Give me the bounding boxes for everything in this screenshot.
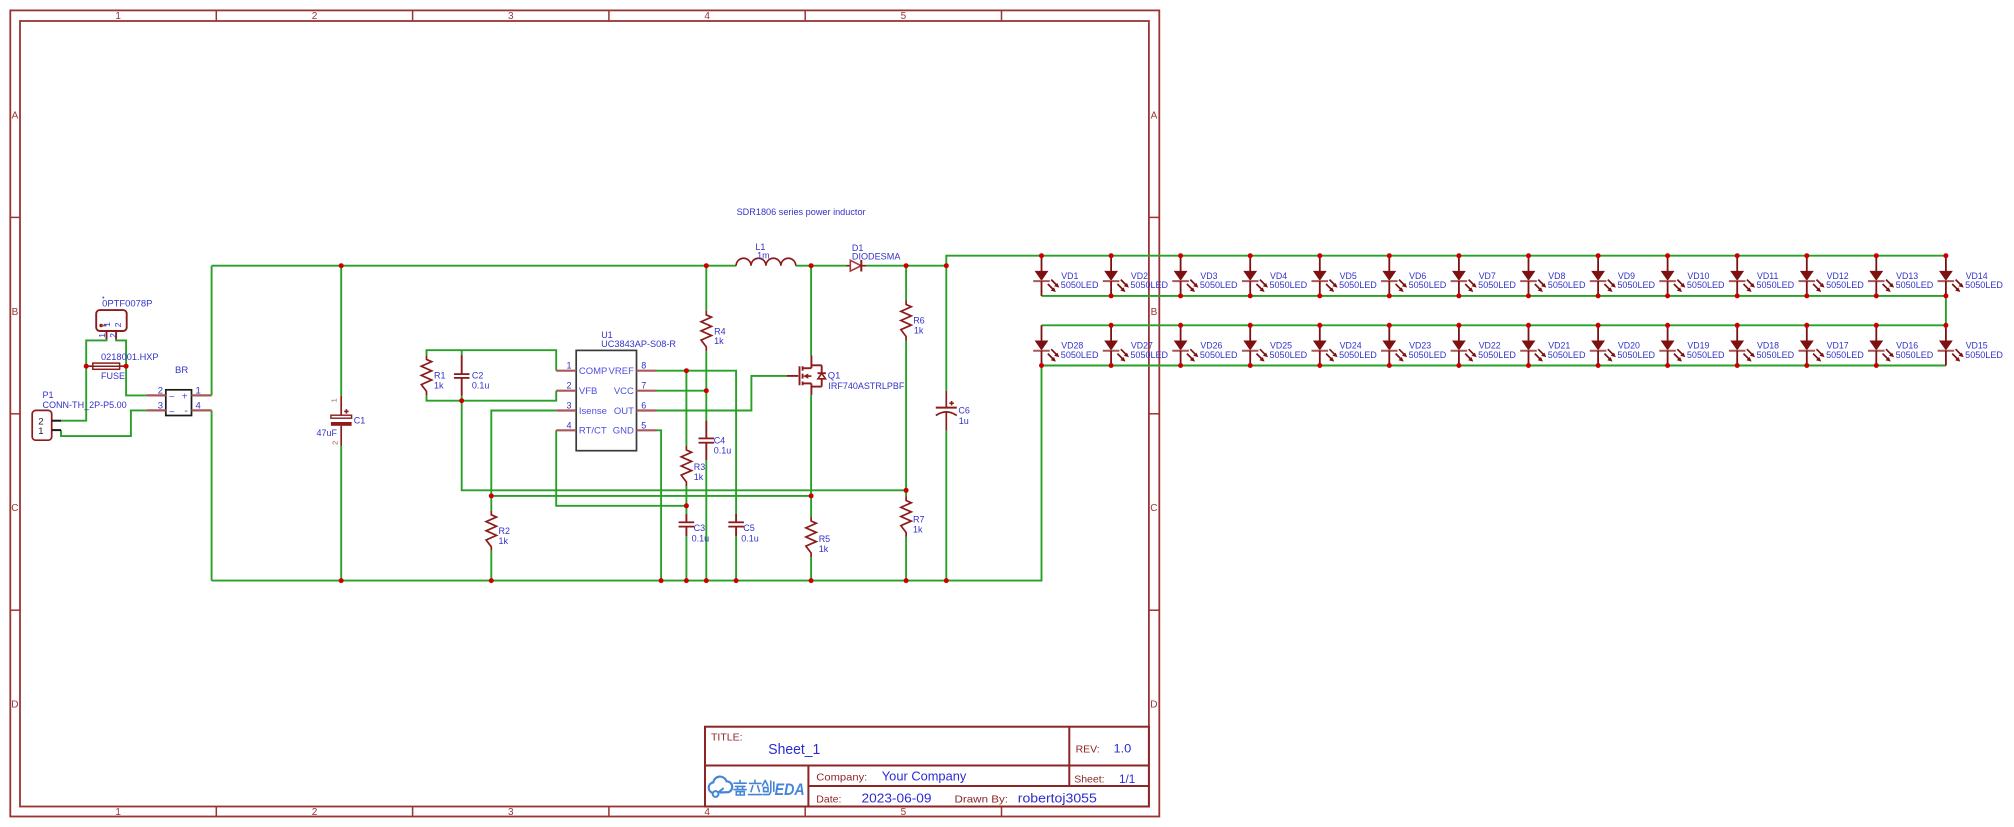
resistor R4 [701, 311, 726, 351]
wire R6 top [905, 266, 907, 301]
svg-text:R3: R3 [694, 462, 706, 472]
svg-text:EDA: EDA [775, 780, 805, 799]
svg-text:Sheet_1: Sheet_1 [768, 741, 820, 758]
LED VD27 5050LED [1103, 325, 1168, 365]
svg-text:VCC: VCC [614, 386, 634, 397]
svg-text:1k: 1k [913, 525, 923, 535]
wire R1/C2 bottom to U1 pin2 (VFB) [427, 391, 557, 401]
junctions LED row2 top rail [1109, 323, 1114, 328]
LED VD7 5050LED [1451, 256, 1516, 296]
svg-text:A: A [1151, 110, 1158, 121]
svg-text:VFB: VFB [579, 386, 597, 397]
svg-text:C3: C3 [694, 523, 706, 533]
svg-text:1k: 1k [819, 544, 829, 554]
inductor L1 1m [736, 242, 796, 266]
svg-text:C5: C5 [743, 523, 755, 533]
svg-text:5050LED: 5050LED [1548, 280, 1586, 290]
svg-text:OUT: OUT [614, 406, 634, 417]
svg-text:1m: 1m [757, 251, 770, 261]
LED VD28 5050LED [1033, 325, 1098, 365]
svg-text:5050LED: 5050LED [1200, 280, 1238, 290]
junction Q1 source/R5 [809, 493, 814, 498]
LED VD19 5050LED [1659, 325, 1724, 365]
wire C6 branch [945, 266, 947, 391]
wire C3 leads [685, 506, 687, 514]
svg-text:6: 6 [641, 401, 646, 411]
diode D1 DIODESMA [847, 243, 901, 272]
IC U1 UC3843AP-S08-R [556, 330, 676, 451]
LED VD11 5050LED [1729, 256, 1794, 296]
junction D1/R6 [904, 263, 909, 268]
svg-text:5050LED: 5050LED [1757, 350, 1795, 360]
LED VD23 5050LED [1381, 325, 1446, 365]
svg-text:C4: C4 [714, 436, 726, 446]
svg-text:1.0: 1.0 [1114, 741, 1132, 755]
wire Isense net to Q1 source / R5 [491, 495, 811, 497]
resistor R1 [421, 355, 445, 395]
junction R6/R7 divider [904, 488, 909, 493]
LED VD6 5050LED [1381, 256, 1446, 296]
LED VD8 5050LED [1520, 256, 1585, 296]
svg-text:47uF: 47uF [317, 428, 338, 438]
svg-text:COMP: COMP [579, 366, 608, 377]
connector P1 [32, 390, 127, 440]
svg-text:5050LED: 5050LED [1965, 280, 2003, 290]
svg-text:-: - [184, 405, 188, 417]
svg-text:5050LED: 5050LED [1965, 350, 2003, 360]
LED VD12 5050LED [1799, 256, 1864, 296]
svg-text:5050LED: 5050LED [1687, 280, 1725, 290]
svg-text:5050LED: 5050LED [1687, 350, 1725, 360]
svg-text:Isense: Isense [579, 406, 607, 417]
resistor R7 [901, 497, 925, 537]
svg-text:5050LED: 5050LED [1478, 350, 1516, 360]
junction C1 top [339, 263, 344, 268]
LED VD24 5050LED [1312, 325, 1377, 365]
svg-text:1k: 1k [914, 325, 924, 335]
LED VD5 5050LED [1312, 256, 1377, 296]
svg-text:C: C [11, 503, 18, 514]
svg-text:3: 3 [508, 807, 514, 818]
junction fuse right [124, 364, 129, 369]
wire Q1 source down [810, 395, 812, 496]
svg-text:~: ~ [169, 392, 175, 403]
junctions LED row2 bottom rail [1039, 363, 1044, 368]
svg-text:5: 5 [641, 420, 646, 430]
svg-text:Sheet:: Sheet: [1074, 774, 1104, 786]
LED VD4 5050LED [1242, 256, 1307, 296]
svg-text:2: 2 [330, 441, 339, 445]
LED VD16 5050LED [1868, 325, 1933, 365]
LED VD3 5050LED [1172, 256, 1237, 296]
svg-text:VREF: VREF [609, 366, 635, 377]
LED VD1 5050LED [1033, 256, 1098, 296]
capacitor C5 [728, 514, 759, 544]
wire main top rail [212, 265, 737, 267]
svg-text:+: + [182, 392, 188, 403]
junctions LED row1 top rail [1039, 253, 1044, 258]
svg-text:4: 4 [704, 807, 710, 818]
wire BR pin1 up to main rail [211, 266, 213, 396]
svg-text:5050LED: 5050LED [1339, 350, 1377, 360]
capacitor C3 [679, 514, 710, 544]
svg-text:2023-06-09: 2023-06-09 [862, 791, 932, 805]
fuse FUSE 0218001.HXP [86, 352, 158, 381]
wire P1.1 to BR pin3 [61, 410, 146, 436]
svg-text:1: 1 [115, 807, 121, 818]
svg-text:TITLE:: TITLE: [711, 732, 743, 744]
junction fuse left [84, 364, 89, 369]
LED VD21 5050LED [1520, 325, 1585, 365]
wire P1.2 to varistor/fuse left [61, 339, 107, 420]
svg-text:5050LED: 5050LED [1130, 280, 1168, 290]
svg-text:B: B [1151, 307, 1158, 318]
svg-text:1: 1 [38, 426, 43, 437]
wire LED row1 bottom rail to row2 top rail [1042, 296, 1946, 325]
svg-text:0PTF0078P: 0PTF0078P [102, 298, 152, 308]
svg-text:3: 3 [158, 401, 163, 412]
svg-text:FUSE: FUSE [101, 371, 125, 381]
wire LED row2 bottom rail [1042, 365, 1946, 367]
svg-text:0.1u: 0.1u [472, 380, 490, 390]
svg-text:R2: R2 [499, 526, 511, 536]
junction R2 top [489, 493, 494, 498]
capacitor C2 [454, 355, 490, 396]
svg-text:2: 2 [108, 333, 118, 338]
svg-text:A: A [12, 110, 19, 121]
svg-text:C6: C6 [958, 406, 970, 416]
svg-text:2: 2 [158, 386, 163, 397]
svg-text:Date:: Date: [816, 793, 841, 805]
junctions LED row1 bottom rail [1109, 293, 1114, 298]
LED VD9 5050LED [1590, 256, 1655, 296]
svg-text:1: 1 [196, 386, 201, 397]
svg-text:5050LED: 5050LED [1061, 280, 1099, 290]
resistor R5 [806, 517, 830, 557]
svg-text:R1: R1 [434, 370, 446, 380]
svg-text:robertoj3055: robertoj3055 [1018, 791, 1097, 805]
wire U1 pin7 (VCC) [657, 390, 707, 392]
svg-text:~: ~ [169, 407, 175, 418]
wire R6 bottom down to divider junction [905, 341, 907, 491]
svg-text:5050LED: 5050LED [1826, 280, 1864, 290]
LED VD2 5050LED [1103, 256, 1168, 296]
svg-text:5050LED: 5050LED [1130, 350, 1168, 360]
junction C2 bottom [459, 398, 464, 403]
svg-text:1: 1 [97, 333, 107, 338]
svg-text:Drawn By:: Drawn By: [955, 793, 1009, 805]
varistor 0PTF0078P [96, 297, 152, 340]
wire C1 branch [340, 266, 342, 396]
svg-text:BR: BR [175, 365, 188, 376]
svg-text:5050LED: 5050LED [1409, 350, 1447, 360]
LED VD22 5050LED [1451, 325, 1516, 365]
svg-text:0.1u: 0.1u [692, 534, 710, 544]
svg-text:P1: P1 [43, 390, 54, 400]
LED VD20 5050LED [1590, 325, 1655, 365]
wire U1 pin8 (VREF) right and down to C5 [657, 371, 737, 514]
junctions ground rail [339, 578, 344, 583]
capacitor C6 1u polarized [936, 391, 970, 431]
svg-text:4: 4 [704, 11, 710, 22]
svg-text:C2: C2 [472, 371, 484, 381]
svg-text:GND: GND [613, 426, 634, 437]
svg-text:1k: 1k [714, 336, 724, 346]
wire C4 bottom to ground [705, 460, 707, 580]
wire U1 pin4 (RT/CT) to C3 [556, 430, 686, 506]
svg-text:Your Company: Your Company [882, 770, 967, 784]
wire Q1 drain [810, 266, 812, 356]
svg-text:5050LED: 5050LED [1617, 350, 1655, 360]
wire U1 pin6 (OUT) to Q1 gate [657, 376, 788, 411]
svg-text:0.1u: 0.1u [741, 534, 759, 544]
svg-text:R5: R5 [819, 534, 831, 544]
logo JLCEDA [709, 777, 805, 799]
svg-text:2: 2 [113, 322, 123, 327]
svg-text:1u: 1u [959, 416, 969, 426]
svg-text:4: 4 [196, 401, 201, 412]
svg-text:RT/CT: RT/CT [579, 426, 607, 437]
svg-text:5050LED: 5050LED [1200, 350, 1238, 360]
wire BR pin4 down [211, 410, 213, 580]
svg-text:5050LED: 5050LED [1896, 280, 1934, 290]
svg-text:3: 3 [508, 11, 514, 22]
svg-text:5: 5 [901, 807, 907, 818]
junction R4/L1 [704, 263, 709, 268]
svg-text:5: 5 [901, 11, 907, 22]
LED VD18 5050LED [1729, 325, 1794, 365]
junction VREF/R3 [684, 368, 689, 373]
svg-text:SDR1806 series power inductor: SDR1806 series power inductor [737, 207, 866, 217]
svg-text:5050LED: 5050LED [1826, 350, 1864, 360]
wire U1 pin3 (Isense) to R2 top [491, 411, 556, 496]
svg-text:UC3843AP-S08-R: UC3843AP-S08-R [601, 339, 676, 349]
svg-text:5050LED: 5050LED [1757, 280, 1795, 290]
svg-text:5050LED: 5050LED [1270, 280, 1308, 290]
resistor R3 [681, 446, 705, 486]
svg-text:5050LED: 5050LED [1061, 350, 1099, 360]
wire to LED row1 top rail [946, 256, 1946, 266]
svg-text:1: 1 [330, 398, 339, 402]
svg-text:D: D [11, 700, 18, 711]
svg-text:R7: R7 [913, 515, 925, 525]
svg-text:Company:: Company: [816, 771, 867, 783]
svg-text:REV:: REV: [1076, 743, 1100, 755]
svg-text:IRF740ASTRLPBF: IRF740ASTRLPBF [828, 381, 904, 391]
wire varistor pin2 / fuse right to BR pin2 [116, 339, 146, 395]
svg-text:8: 8 [641, 361, 646, 371]
wire U1 pin5 (GND) down [657, 430, 662, 580]
svg-text:1: 1 [566, 361, 571, 371]
svg-text:D: D [1150, 700, 1157, 711]
LED VD14 5050LED [1938, 256, 2003, 296]
wire R3 leads [685, 371, 687, 446]
LED VD17 5050LED [1799, 325, 1864, 365]
svg-text:5050LED: 5050LED [1617, 280, 1655, 290]
svg-text:0.1u: 0.1u [714, 446, 732, 456]
svg-text:2: 2 [312, 807, 318, 818]
LED VD15 5050LED [1938, 325, 2003, 365]
svg-text:3: 3 [566, 401, 571, 411]
svg-text:1: 1 [115, 11, 121, 22]
wire C5 bottom [735, 536, 737, 581]
junction C6 top [944, 263, 949, 268]
wire R7 leads [905, 490, 907, 496]
wire R4 leads / VCC to C4 [705, 266, 707, 311]
transistor Q1 IRF740ASTRLPBF [787, 356, 905, 395]
svg-text:5050LED: 5050LED [1409, 280, 1447, 290]
svg-text:7: 7 [641, 381, 646, 391]
svg-text:5050LED: 5050LED [1478, 280, 1516, 290]
wire R5 leads [810, 496, 812, 517]
svg-text:1: 1 [102, 322, 112, 327]
svg-text:5050LED: 5050LED [1896, 350, 1934, 360]
resistor R2 [486, 511, 510, 551]
capacitor C1 47uF [317, 396, 366, 446]
svg-text:1k: 1k [499, 536, 509, 546]
junction Q1 drain [809, 263, 814, 268]
wire R1/C2 top to U1 pin1 (COMP) [427, 350, 557, 371]
wire ground rail [212, 366, 1042, 581]
svg-text:DIODESMA: DIODESMA [852, 251, 901, 261]
svg-text:R6: R6 [913, 316, 925, 326]
junction RT-CT/C3 [684, 503, 689, 508]
LED VD13 5050LED [1868, 256, 1933, 296]
bridge rectifier BR [146, 365, 211, 418]
svg-text:1/1: 1/1 [1119, 772, 1136, 786]
LED VD26 5050LED [1172, 325, 1237, 365]
title block [705, 727, 1149, 807]
svg-text:CONN-TH_2P-P5.00: CONN-TH_2P-P5.00 [43, 400, 127, 410]
resistor R6 [901, 301, 925, 341]
svg-text:2: 2 [312, 11, 318, 22]
svg-text:5050LED: 5050LED [1339, 280, 1377, 290]
svg-text:1k: 1k [694, 472, 704, 482]
svg-text:5050LED: 5050LED [1548, 350, 1586, 360]
LED VD10 5050LED [1659, 256, 1724, 296]
wire VFB net down and right to divider [462, 401, 906, 491]
svg-text:C: C [1150, 503, 1157, 514]
svg-text:1k: 1k [434, 380, 444, 390]
svg-text:R4: R4 [714, 326, 726, 336]
svg-text:0218001.HXP: 0218001.HXP [101, 352, 159, 362]
svg-text:2: 2 [566, 381, 571, 391]
capacitor C4 [699, 421, 732, 461]
LED VD25 5050LED [1242, 325, 1307, 365]
svg-text:5050LED: 5050LED [1270, 350, 1308, 360]
svg-text:B: B [12, 307, 19, 318]
junction VCC/R4/C4 [704, 388, 709, 393]
svg-text:C1: C1 [354, 416, 366, 426]
svg-text:4: 4 [566, 420, 571, 430]
